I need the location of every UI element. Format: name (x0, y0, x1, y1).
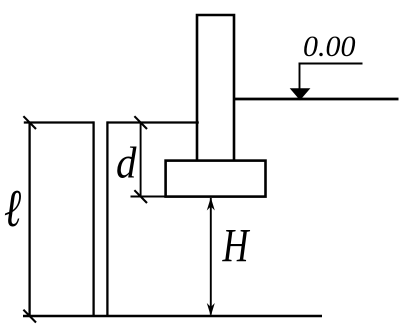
H bottom arrowhead (down) (207, 303, 215, 316)
bottom line (base level) (23, 315, 322, 318)
upper ground line (inside pit) from pile line to column (107, 121, 198, 123)
svg-text:H: H (222, 220, 251, 273)
tick at top of d dimension (134, 116, 147, 129)
H top arrowhead (up) (207, 198, 215, 211)
left wall rectangle (top edge with left overshoot) (24, 121, 94, 123)
left wall right edge (92, 121, 94, 316)
svg-text:ℓ: ℓ (4, 180, 21, 238)
H dimension line (210, 198, 212, 315)
elevation marker leader: vertical (299, 63, 301, 91)
svg-text:0.00: 0.00 (303, 30, 356, 63)
column (pier) (197, 15, 234, 161)
tick at bottom of l dimension (23, 310, 36, 323)
pile / trench right line (106, 121, 108, 316)
d dimension line (140, 123, 142, 197)
ground line right of column (233, 98, 399, 101)
svg-text:d: d (116, 139, 137, 188)
elevation marker triangle (290, 88, 311, 100)
elevation marker leader: horizontal (299, 63, 363, 65)
footing (pile cap) (166, 161, 266, 197)
tick at top of l dimension (23, 116, 36, 129)
left wall left edge / l dimension line (28, 123, 30, 317)
tick at bottom of d dimension (134, 190, 147, 203)
extension line at footing bottom level (131, 196, 168, 198)
